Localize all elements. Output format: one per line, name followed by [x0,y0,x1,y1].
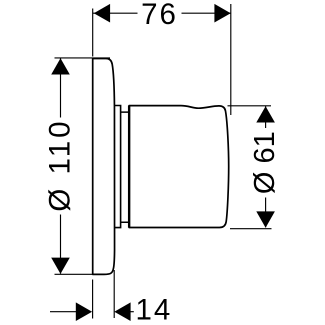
svg-text:Ø 61: Ø 61 [249,131,281,194]
dim 76: dimension line [93,12,231,14]
escutcheon plate (side profile) [93,59,115,275]
dim 110: dimension line [60,58,62,273]
dim 110: top arrowhead [51,58,70,74]
dim 14: right arrowhead [114,302,130,321]
dim 76: right arrowhead [214,4,230,23]
handle knob [129,106,229,228]
dim 61: top extension line [228,105,272,107]
dim 14: left extension line [92,280,94,319]
dim 110: bottom arrowhead [51,258,70,274]
svg-text:76: 76 [141,0,178,31]
dim 76: left arrowhead [94,4,110,23]
recessed groove lines [121,112,129,222]
dim 14: right leader line [129,311,134,313]
dim 61: bottom arrowhead [256,211,275,227]
dim 14: left leader line [50,311,78,313]
dim 76: right extension line [230,4,232,115]
dim 61: dimension line [265,106,267,227]
dim 76: left extension line [92,9,94,57]
sleeve ring between plate and handle [115,106,121,228]
dim 14: right extension line [113,270,115,318]
svg-text:Ø 110: Ø 110 [44,118,77,211]
dim 61: bottom extension line [230,228,272,230]
dim 14: left arrowhead [76,302,92,321]
dim 110: top extension line [55,57,111,59]
handle left face (thick edge) [128,106,130,228]
dim 61: top arrowhead [256,106,275,122]
dim 110: bottom extension line [55,273,95,275]
svg-text:14: 14 [136,294,173,325]
